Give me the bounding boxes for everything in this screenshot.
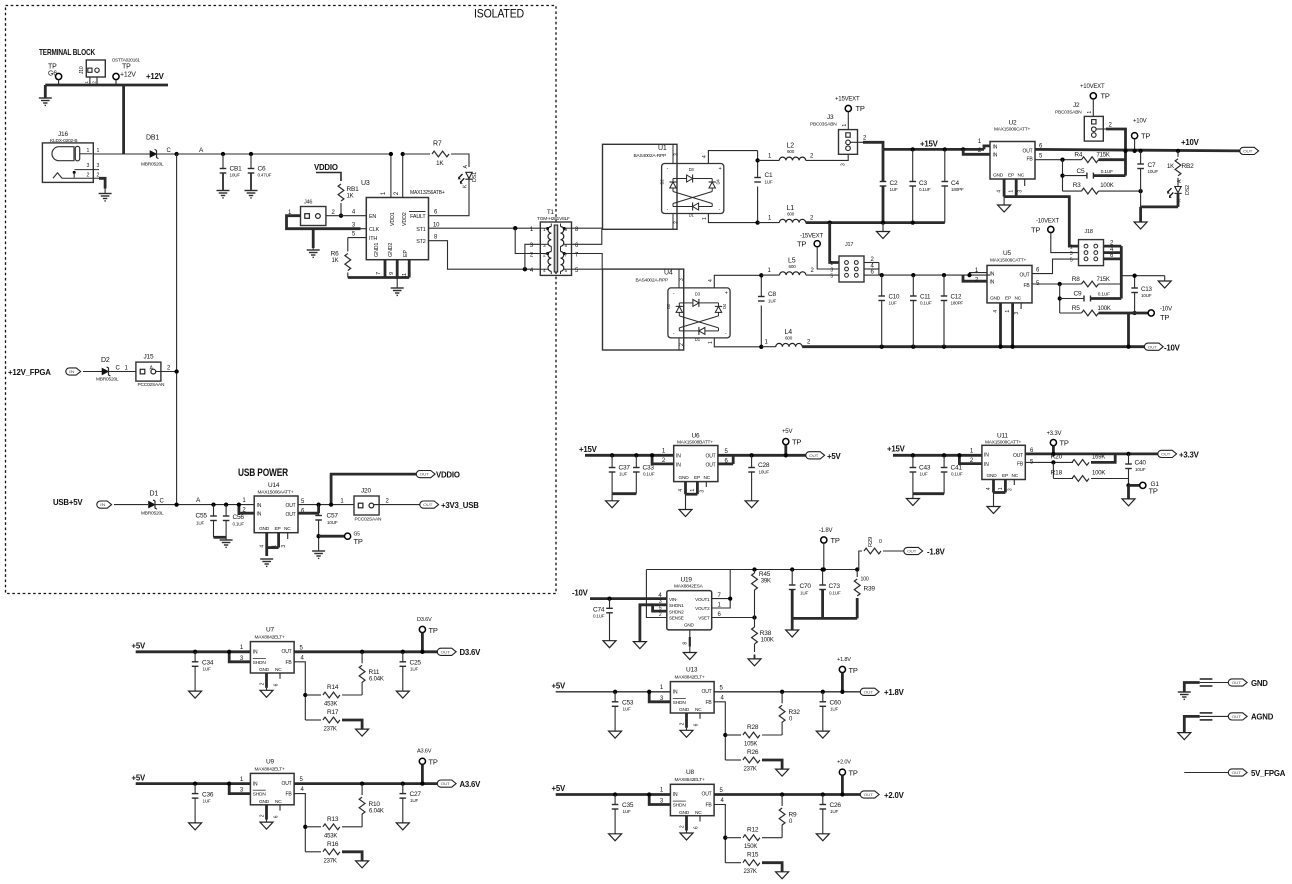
wire U5 FB to R8 [1032, 283, 1082, 285]
svg-text:C4: C4 [951, 180, 959, 187]
svg-text:EP: EP [694, 475, 700, 481]
wire U6 out to port [718, 454, 808, 457]
wire C4 column [944, 149, 946, 181]
wire U5 GND drop [999, 303, 1002, 347]
wire rail up to R29 [859, 551, 862, 570]
wire VSET line [712, 617, 755, 619]
svg-text:1UF: 1UF [410, 798, 418, 803]
svg-text:R11: R11 [369, 669, 380, 676]
svg-text:U7: U7 [266, 627, 274, 634]
capacitor C1 1UF [754, 177, 761, 179]
svg-text:GND: GND [259, 526, 270, 532]
capacitor C36 1UF [194, 784, 196, 794]
capacitor C26 1UF [822, 795, 824, 805]
junction C43 [911, 453, 915, 457]
svg-text:TP: TP [1031, 226, 1040, 235]
svg-text:3: 3 [281, 545, 287, 548]
svg-text:J17: J17 [845, 242, 853, 248]
svg-text:GND: GND [1251, 679, 1268, 688]
wire L1 return bus [806, 221, 945, 224]
svg-text:U4: U4 [664, 270, 673, 277]
svg-text:TP: TP [831, 536, 840, 545]
wire branch to U5 pin2 [963, 275, 987, 281]
svg-text:2: 2 [87, 173, 90, 179]
pin 2 U4 [678, 338, 680, 350]
ground AGND C37 [611, 494, 613, 501]
svg-text:DS1: DS1 [472, 172, 478, 182]
svg-text:D2: D2 [101, 357, 110, 364]
wire DB1 cathode to node [157, 153, 178, 155]
svg-text:+5V: +5V [552, 784, 566, 793]
wire U11 FB to R20 [1025, 461, 1073, 463]
ground AGND U9 [260, 822, 273, 829]
svg-text:180PF: 180PF [951, 187, 964, 192]
svg-text:R9: R9 [789, 812, 797, 819]
capacitor C10 1UF [878, 295, 885, 297]
svg-text:TP: TP [849, 666, 858, 675]
svg-text:U2: U2 [1009, 120, 1017, 127]
svg-text:FB: FB [1017, 461, 1024, 467]
wire node to gnd [1127, 485, 1130, 499]
capacitor C35 1UF [614, 795, 616, 805]
svg-text:0.47UF: 0.47UF [258, 173, 272, 178]
wire U8 GND drop [685, 816, 688, 831]
svg-text:10: 10 [433, 223, 440, 229]
svg-text:1UF: 1UF [830, 809, 838, 814]
svg-text:FB: FB [286, 660, 293, 666]
pin 4 U1 [708, 151, 757, 164]
svg-text:+15V: +15V [579, 445, 598, 454]
svg-text:100: 100 [861, 577, 869, 583]
capacitor C70 1UF [789, 584, 796, 586]
wire U2 gnd stub [1003, 197, 1005, 205]
ground AGND R38 [748, 659, 761, 666]
wire U11 EP drop [1004, 480, 1007, 493]
wire TP G5 [319, 535, 345, 538]
wire C3 column [912, 149, 914, 181]
svg-text:+5V: +5V [552, 682, 566, 691]
wire U13 out bus [714, 691, 860, 693]
junction feed/vert [880, 273, 884, 277]
wire +15V bus U11 [893, 454, 982, 457]
ground AGND C43 [912, 494, 914, 499]
svg-text:CB1: CB1 [230, 166, 243, 173]
ground AGND C53 [609, 731, 622, 738]
svg-text:R6: R6 [331, 251, 339, 258]
svg-text:4: 4 [997, 190, 1003, 193]
svg-text:IN: IN [257, 503, 262, 509]
svg-text:C13: C13 [1141, 286, 1153, 293]
svg-text:+12V: +12V [120, 72, 136, 79]
svg-text:150K: 150K [744, 844, 757, 850]
capacitor C8 1UF [758, 296, 765, 298]
resistor R12 150K [725, 837, 741, 839]
svg-text:MAX15006CATT+: MAX15006CATT+ [994, 127, 1031, 133]
junction L1/J17 [828, 220, 832, 224]
svg-text:NC: NC [1018, 173, 1025, 179]
svg-text:R3: R3 [1073, 182, 1081, 189]
svg-text:C40: C40 [1135, 460, 1147, 467]
wire TP-10VEXT to J18 pin3 [1051, 233, 1079, 253]
svg-text:GND: GND [684, 623, 694, 628]
junction FB/R14 [303, 693, 307, 697]
junction C3 bottom [911, 220, 915, 224]
wire C12 column [943, 275, 945, 296]
capacitor C4 180PF [942, 181, 949, 183]
svg-text:OUT: OUT [286, 512, 296, 518]
svg-text:R4: R4 [1074, 152, 1082, 159]
junction D1/+12V vertical [174, 502, 178, 506]
junction C53 [613, 690, 617, 694]
svg-text:10UF: 10UF [1141, 293, 1152, 298]
svg-text:0.1UF: 0.1UF [643, 472, 655, 477]
svg-text:DS2: DS2 [1185, 185, 1191, 195]
svg-text:SHDN: SHDN [253, 660, 267, 666]
svg-text:MBR0520L: MBR0520L [141, 511, 164, 517]
svg-text:105K: 105K [744, 742, 757, 748]
output port +1.8V [860, 688, 879, 695]
svg-text:0.1UF: 0.1UF [919, 187, 931, 192]
svg-text:+1.8V: +1.8V [837, 657, 851, 663]
svg-text:1UF: 1UF [768, 299, 776, 304]
svg-text:VDDIO: VDDIO [436, 471, 460, 480]
wire TP to J2 pin1 [1092, 99, 1094, 116]
input port USB+5V [97, 501, 112, 508]
svg-text:SHDN: SHDN [673, 700, 687, 706]
capacitor C2 1UF [880, 181, 887, 183]
wire bus to ground [44, 85, 47, 98]
svg-text:OUT: OUT [282, 781, 292, 787]
wire U6 pin6 tie [718, 462, 733, 465]
diode bridge U1 body [662, 164, 724, 214]
testpoint TP +12V [113, 73, 119, 79]
svg-text:IN: IN [69, 369, 74, 374]
resistor R18 100K [1053, 478, 1073, 480]
svg-text:RB1: RB1 [347, 186, 360, 193]
svg-text:SHDN: SHDN [673, 803, 687, 809]
svg-text:6.04K: 6.04K [369, 677, 384, 683]
capacitor C3 0.1UF [909, 181, 916, 183]
svg-text:1UF: 1UF [410, 666, 418, 671]
svg-text:J18: J18 [1085, 229, 1093, 235]
wire C8 bottom to L4 [761, 346, 776, 348]
wire C73 column [822, 570, 824, 586]
svg-text:FB: FB [286, 792, 293, 798]
wire U9 pin3 branch [229, 784, 250, 794]
wire U4 loop right with C8 [760, 275, 762, 296]
capacitor C57 10UF [315, 515, 322, 517]
capacitor C13 10UF [1131, 287, 1138, 289]
svg-text:10UF: 10UF [1148, 169, 1159, 174]
svg-text:NC: NC [275, 667, 282, 673]
svg-text:MAX8842ELT+: MAX8842ELT+ [675, 675, 706, 681]
svg-text:1UF: 1UF [619, 472, 627, 477]
capacitor C27 1UF [402, 784, 404, 794]
svg-text:4: 4 [702, 155, 708, 158]
junction C36 [193, 781, 197, 785]
svg-text:D3.6V: D3.6V [417, 617, 432, 623]
svg-text:5: 5 [1070, 257, 1073, 263]
svg-text:NC: NC [284, 526, 291, 532]
svg-text:IN: IN [993, 144, 998, 150]
junction C56 [224, 502, 228, 506]
junction C25 [401, 650, 405, 654]
ground AGND U8 [680, 833, 693, 840]
pin6 U7 NC [279, 673, 281, 679]
wire TP-15VEXT to J17 pin3 [817, 247, 839, 269]
svg-text:TP: TP [122, 64, 131, 71]
svg-text:+5V: +5V [132, 642, 146, 651]
wire U7 FB down [294, 662, 305, 720]
svg-text:TP: TP [1141, 132, 1150, 141]
junction VDD2 rail [401, 152, 405, 156]
svg-text:600: 600 [789, 264, 797, 269]
svg-text:GND: GND [679, 475, 690, 481]
wire bus to AGND [882, 223, 884, 232]
wire EP drop [408, 260, 411, 278]
wire C7 column [1140, 151, 1142, 164]
svg-text:-10V: -10V [1164, 344, 1181, 353]
wire U6 pin2 branch [652, 455, 674, 464]
wire U11 GND drop [992, 480, 995, 493]
svg-text:OUT: OUT [907, 549, 917, 554]
svg-text:C11: C11 [920, 294, 931, 301]
pin3 U11 NC [1013, 480, 1015, 486]
junction FB/R13 [303, 825, 307, 829]
svg-text:+5V: +5V [782, 429, 792, 435]
wire T1 pin8 to U1 [572, 227, 603, 229]
resistor RB2 1K [1176, 149, 1180, 153]
svg-text:4: 4 [986, 487, 992, 490]
svg-text:C53: C53 [622, 700, 634, 707]
svg-text:R16: R16 [327, 841, 339, 848]
wire U5 OUT up to J18 pin5 [1032, 259, 1079, 274]
junction C5 node [1060, 173, 1064, 177]
svg-text:C73: C73 [829, 583, 841, 590]
svg-text:6: 6 [694, 826, 700, 829]
wire U9 GND drop [265, 805, 268, 820]
junction U1 out bottom [755, 220, 759, 224]
junction C12 bottom [942, 345, 946, 349]
capacitor C41 0.1UF [943, 455, 945, 467]
svg-text:10UF: 10UF [327, 520, 338, 525]
wire R28 up to R32 [781, 722, 783, 735]
svg-text:IN: IN [990, 280, 995, 286]
capacitor C6 0.47UF [250, 154, 252, 169]
svg-text:RB2: RB2 [1182, 163, 1195, 170]
svg-text:R45: R45 [759, 571, 771, 578]
capacitor C43 1UF [912, 455, 914, 467]
wire J16 pin1 to rail [93, 153, 123, 155]
testpoint TP G5 [345, 533, 351, 539]
svg-text:10UF: 10UF [230, 173, 241, 178]
junction C6 [249, 152, 253, 156]
svg-text:100K: 100K [761, 638, 774, 644]
ground J46 [307, 249, 320, 251]
svg-text:OUT: OUT [286, 503, 296, 509]
svg-text:NC: NC [1012, 473, 1019, 479]
svg-text:NC: NC [1015, 296, 1022, 302]
svg-text:6: 6 [274, 815, 280, 818]
svg-text:MAX8842ESA: MAX8842ESA [674, 584, 704, 590]
wire U8 pin3 branch [649, 795, 670, 805]
svg-text:T1: T1 [547, 210, 554, 216]
pin6 U8 NC [699, 816, 701, 822]
output port A3.6V [437, 780, 456, 787]
wire T1 pin5 to U4 [572, 268, 603, 270]
svg-text:C12: C12 [951, 294, 963, 301]
ground AGND legend [1178, 733, 1191, 740]
svg-text:GND1: GND1 [374, 243, 380, 257]
svg-text:VDD2: VDD2 [402, 212, 408, 226]
wire C40 column [1128, 454, 1130, 464]
svg-text:TP: TP [856, 104, 865, 113]
wire U3 bottom bus [348, 276, 409, 279]
svg-text:OUT: OUT [1232, 714, 1242, 719]
wire SHDN to gnd [640, 605, 653, 642]
svg-text:GND2: GND2 [388, 243, 394, 257]
svg-text:TP: TP [429, 758, 438, 767]
svg-text:ST1: ST1 [416, 227, 425, 233]
resistor R15 237K [725, 862, 741, 864]
junction U4 out bottom [759, 345, 763, 349]
wire rail DB1 to U3 area [177, 153, 391, 155]
svg-text:3: 3 [87, 163, 90, 169]
svg-text:GND: GND [679, 707, 690, 713]
wire U11 out to port [1025, 452, 1159, 455]
svg-text:237K: 237K [324, 858, 337, 864]
svg-text:PCC02SAAN: PCC02SAAN [355, 517, 382, 523]
svg-text:U19: U19 [681, 577, 693, 584]
svg-text:D1: D1 [150, 491, 159, 498]
wire U13 GND drop [685, 713, 688, 728]
svg-text:OUT: OUT [864, 689, 874, 694]
svg-text:TP: TP [797, 240, 806, 249]
capacitor C9 0.1UF [1060, 298, 1084, 300]
svg-text:-1.8V: -1.8V [819, 528, 833, 534]
svg-text:180PF: 180PF [951, 301, 964, 306]
capacitor C5 0.1UF [1063, 175, 1087, 177]
junction U5 pin2 branch [967, 273, 971, 277]
svg-text:C26: C26 [830, 802, 842, 809]
wire U11 gnd stub [993, 493, 995, 507]
wire bottom tie -1.8V [792, 617, 857, 620]
svg-text:OUT: OUT [420, 472, 430, 477]
ground AGND C35 [609, 834, 622, 841]
svg-text:1K: 1K [332, 258, 339, 264]
svg-text:J20: J20 [361, 488, 371, 495]
ground CB1 [217, 190, 230, 192]
wire R4 to OUT node [1099, 158, 1126, 161]
pin 2 U1 [672, 214, 674, 230]
terminal block J10 [86, 60, 105, 77]
capacitor C37 1UF [611, 455, 613, 467]
svg-text:1: 1 [690, 489, 696, 492]
wire L1 bus to J17 pin1 [830, 223, 839, 263]
ground C6 [245, 190, 258, 192]
wire D1 to U14 [155, 504, 254, 506]
wire +5V bus U13 left [556, 691, 671, 693]
legend AGND port [1228, 713, 1247, 720]
svg-text:D2: D2 [666, 303, 671, 309]
junction FB U11 [1051, 460, 1055, 464]
wire VDD2 to rail [402, 154, 404, 198]
svg-text:1: 1 [702, 217, 708, 220]
svg-text:C35: C35 [622, 802, 634, 809]
wire C2 column [882, 149, 885, 181]
capacitor C25 1UF [402, 652, 404, 662]
resistor R3 100K [1063, 190, 1082, 192]
wire tie to AGND [1121, 275, 1164, 277]
svg-text:C1: C1 [765, 172, 773, 179]
svg-text:3: 3 [679, 278, 685, 281]
wire TP to J3 pin1 [847, 112, 849, 130]
svg-text:237K: 237K [744, 767, 757, 773]
pin3 U5 NC [1020, 303, 1022, 309]
wires J18 right tie [1104, 245, 1122, 248]
svg-text:OUT: OUT [1023, 149, 1033, 155]
capacitor C60 1UF [822, 692, 824, 702]
ground AGND R26 [776, 769, 789, 776]
wire T1 pin6 up to U1 [572, 229, 602, 244]
svg-text:U11: U11 [997, 433, 1008, 440]
svg-text:U5: U5 [1003, 250, 1011, 257]
svg-text:R28: R28 [747, 724, 759, 731]
junction VDD1 rail [389, 152, 393, 156]
svg-text:OUT: OUT [706, 462, 716, 468]
resistor R14 453K [305, 694, 321, 696]
svg-text:C74: C74 [593, 607, 605, 614]
svg-text:+3V3_USB: +3V3_USB [441, 501, 479, 510]
svg-text:1UF: 1UF [203, 667, 211, 672]
testpoint TP G1 [1140, 482, 1146, 488]
pin 1 U1 bottom [708, 214, 757, 223]
svg-text:10UF: 10UF [1135, 467, 1146, 472]
svg-text:VSET: VSET [698, 616, 710, 621]
svg-text:VDDIO: VDDIO [314, 163, 338, 172]
svg-text:D3: D3 [695, 291, 701, 296]
svg-text:TP: TP [429, 626, 438, 635]
wire D2 to J15 [109, 371, 136, 373]
wire J2 pin2 drop [1106, 129, 1126, 176]
svg-text:TP: TP [1060, 439, 1069, 448]
svg-text:R38: R38 [760, 630, 772, 637]
wire U8 FB down [714, 805, 725, 863]
svg-text:MAX8842ELT+: MAX8842ELT+ [255, 766, 286, 772]
svg-text:IN: IN [257, 512, 262, 518]
wire R13 up to R10 [361, 814, 363, 827]
junction C4 top [943, 147, 947, 151]
legend AGND wire [1184, 716, 1199, 732]
svg-text:OUT: OUT [864, 792, 874, 797]
wire -10V feed U19 [590, 597, 667, 600]
output port +10V [1240, 147, 1259, 154]
svg-text:NC: NC [704, 475, 711, 481]
wire C55 join C56 [214, 536, 227, 539]
svg-text:IN: IN [984, 453, 989, 459]
svg-text:J16: J16 [58, 131, 68, 138]
wire ST1 to T1 pins 1 [429, 227, 541, 229]
wire DS2 to C7 node [1177, 193, 1180, 207]
junction C37 [610, 453, 614, 457]
svg-text:-10VEXT: -10VEXT [1036, 219, 1059, 225]
svg-text:1: 1 [272, 545, 278, 548]
svg-text:+: + [719, 166, 722, 172]
svg-text:U8: U8 [686, 769, 694, 776]
svg-text:D1: D1 [695, 337, 701, 342]
wire C13 column [1134, 276, 1136, 288]
diode bridge U4 body [668, 288, 730, 338]
